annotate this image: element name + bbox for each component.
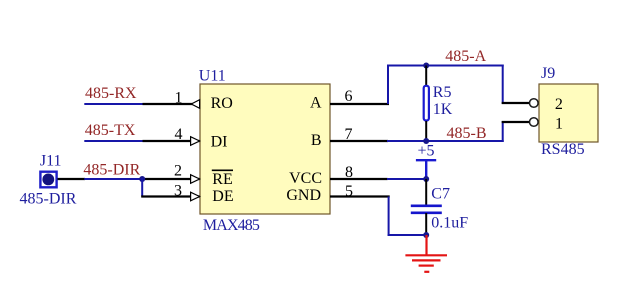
svg-text:+5: +5: [418, 143, 435, 160]
svg-text:MAX485: MAX485: [203, 217, 260, 234]
svg-text:485-TX: 485-TX: [85, 122, 136, 139]
op-amp U11 body: [200, 84, 330, 214]
ground stem: [425, 235, 427, 255]
pin 8 line: [330, 178, 388, 180]
svg-text:VCC: VCC: [289, 170, 322, 187]
svg-text:U11: U11: [199, 68, 226, 85]
pin 1 line: [143, 103, 200, 105]
junction dot VCC: [423, 176, 429, 182]
pin line to J9 pin2 circle: [502, 102, 530, 104]
svg-text:1K: 1K: [433, 101, 453, 118]
svg-text:485-DIR: 485-DIR: [20, 191, 77, 208]
svg-text:3: 3: [174, 182, 182, 199]
svg-text:DE: DE: [212, 188, 233, 205]
pin 7 line: [330, 140, 388, 142]
resistor R5 bottom lead: [425, 121, 427, 141]
pin 3 edge triangle: [191, 192, 200, 201]
pin 5 line: [330, 195, 390, 197]
svg-text:J9: J9: [541, 65, 555, 82]
ground bar 3: [419, 265, 434, 267]
capacitor C7 bottom stem: [425, 213, 427, 235]
svg-text:GND: GND: [286, 187, 321, 204]
svg-text:A: A: [310, 95, 322, 112]
J9 pin 2 circle: [530, 99, 539, 108]
pin 6 line: [330, 103, 389, 105]
pin 3 line: [141, 195, 199, 197]
pin 1 edge triangle: [191, 100, 199, 109]
resistor R5 top lead: [425, 66, 427, 87]
ground bar 2: [412, 259, 441, 261]
svg-text:1: 1: [175, 89, 183, 106]
junction dot R5 top: [423, 63, 429, 69]
wire riser A: [387, 65, 389, 105]
pin 4 edge triangle: [191, 137, 200, 146]
svg-text:5: 5: [345, 183, 353, 200]
pin line to J9 pin1 circle: [502, 121, 530, 123]
wire vertical to DE: [141, 178, 143, 197]
capacitor C7 bottom plate: [411, 212, 442, 215]
svg-text:DI: DI: [211, 133, 228, 150]
connector J11 square: [40, 172, 56, 188]
junction dot R5 bottom: [423, 138, 429, 144]
svg-text:C7: C7: [431, 186, 450, 203]
wire GND horizontal: [388, 234, 427, 236]
svg-text:2: 2: [555, 96, 563, 113]
svg-text:485-RX: 485-RX: [85, 85, 137, 102]
svg-text:485-B: 485-B: [447, 125, 487, 142]
J9 pin 1 circle: [530, 118, 539, 127]
connector J9 body: [539, 84, 598, 142]
power port +5 bar: [416, 159, 436, 161]
capacitor C7 top stem: [425, 179, 427, 206]
svg-text:1: 1: [555, 115, 563, 132]
wire 485-A horizontal: [387, 65, 504, 67]
svg-text:RO: RO: [211, 95, 233, 112]
svg-text:RE: RE: [212, 171, 232, 188]
pin 2 edge triangle: [191, 175, 200, 184]
wire 485-DIR net: [84, 178, 142, 180]
wire riser J9 pin1: [502, 121, 504, 142]
svg-text:8: 8: [345, 164, 353, 181]
RE overline: [212, 169, 233, 171]
wire GND riser: [388, 197, 390, 237]
pin line from J11: [58, 178, 86, 180]
pin 4 line: [143, 140, 200, 142]
svg-text:R5: R5: [433, 84, 452, 101]
svg-text:7: 7: [345, 126, 353, 143]
resistor R5 body: [424, 86, 429, 121]
svg-text:6: 6: [345, 88, 353, 105]
capacitor C7 top plate: [411, 205, 442, 208]
wire 485-RX net: [84, 103, 143, 105]
wire 485-B horizontal: [387, 140, 504, 142]
pin 2 line: [142, 178, 199, 180]
svg-text:4: 4: [175, 126, 183, 143]
connector J11 pad circle: [42, 174, 54, 186]
wire 485-TX net: [84, 140, 143, 142]
wire VCC net: [387, 178, 427, 180]
svg-text:B: B: [311, 132, 322, 149]
junction dot 485-DIR: [139, 176, 145, 182]
ground bar 4: [424, 271, 429, 273]
svg-text:485-A: 485-A: [445, 48, 486, 65]
ground bar 1: [405, 254, 447, 256]
svg-text:2: 2: [174, 163, 182, 180]
wire riser J9 pin2: [502, 65, 504, 105]
svg-text:485-DIR: 485-DIR: [83, 162, 140, 179]
junction dot GND: [423, 232, 429, 238]
svg-text:RS485: RS485: [541, 141, 585, 158]
svg-text:J11: J11: [40, 153, 62, 170]
svg-text:0.1uF: 0.1uF: [431, 215, 468, 232]
power port +5 stem: [425, 160, 427, 179]
